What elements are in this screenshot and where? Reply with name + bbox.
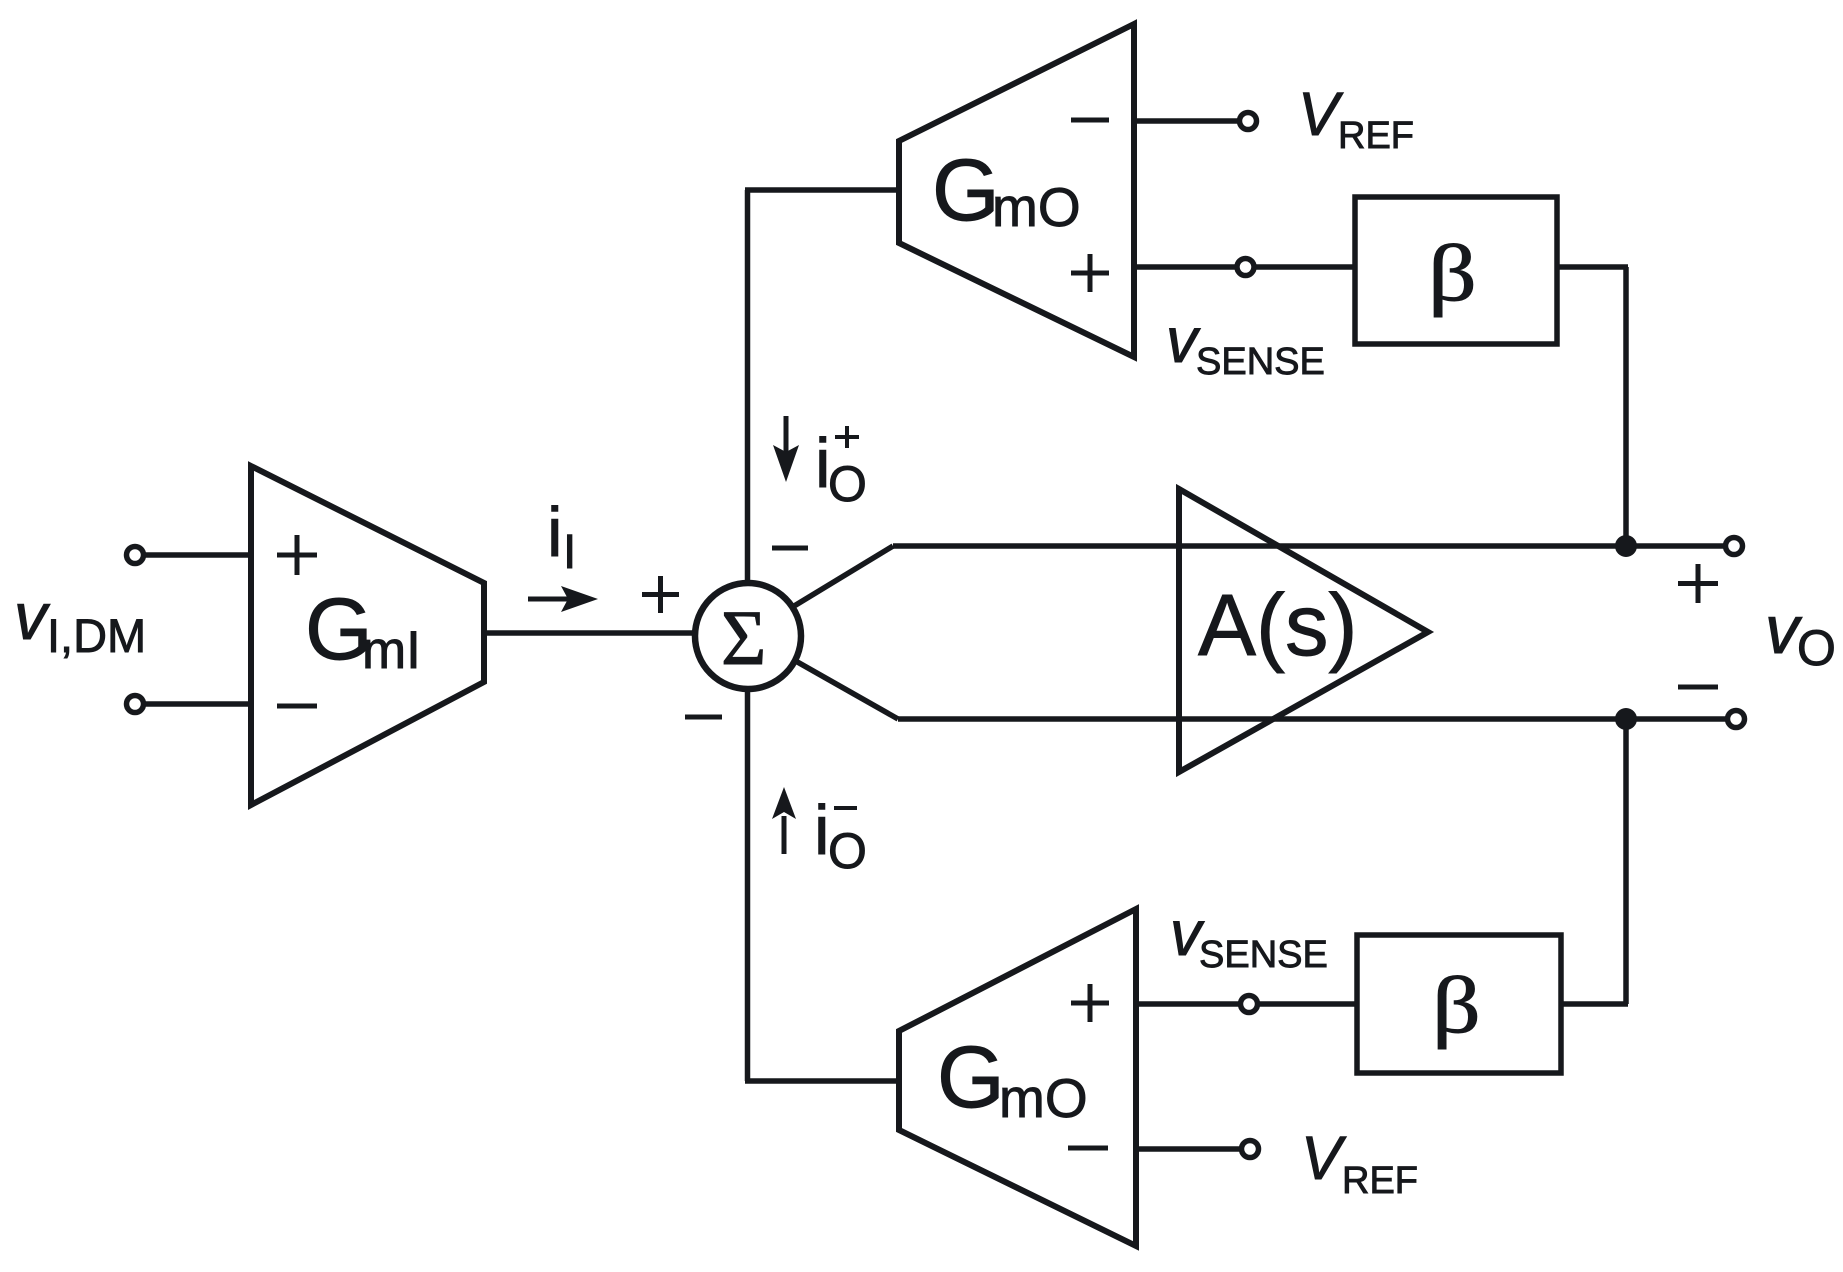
svg-text:SENSE: SENSE — [1199, 934, 1328, 976]
svg-text:mI: mI — [362, 621, 421, 680]
svg-text:mO: mO — [992, 176, 1081, 238]
svg-text:Σ: Σ — [721, 594, 766, 681]
svg-text:A(s): A(s) — [1198, 577, 1357, 674]
svg-text:i: i — [547, 493, 563, 571]
svg-text:I: I — [563, 526, 576, 579]
svg-text:O: O — [1797, 620, 1836, 676]
svg-text:G: G — [932, 142, 1000, 239]
svg-text:v: v — [14, 579, 51, 653]
svg-text:O: O — [828, 456, 867, 512]
svg-text:REF: REF — [1338, 115, 1414, 157]
svg-text:O: O — [828, 823, 867, 879]
svg-text:β: β — [1432, 961, 1481, 1050]
svg-text:I,DM: I,DM — [47, 609, 146, 662]
svg-text:β: β — [1428, 229, 1477, 318]
svg-text:mO: mO — [999, 1067, 1088, 1129]
svg-text:V: V — [1301, 1124, 1347, 1192]
svg-text:REF: REF — [1342, 1160, 1418, 1202]
svg-text:G: G — [937, 1029, 1005, 1126]
svg-text:SENSE: SENSE — [1196, 341, 1325, 383]
